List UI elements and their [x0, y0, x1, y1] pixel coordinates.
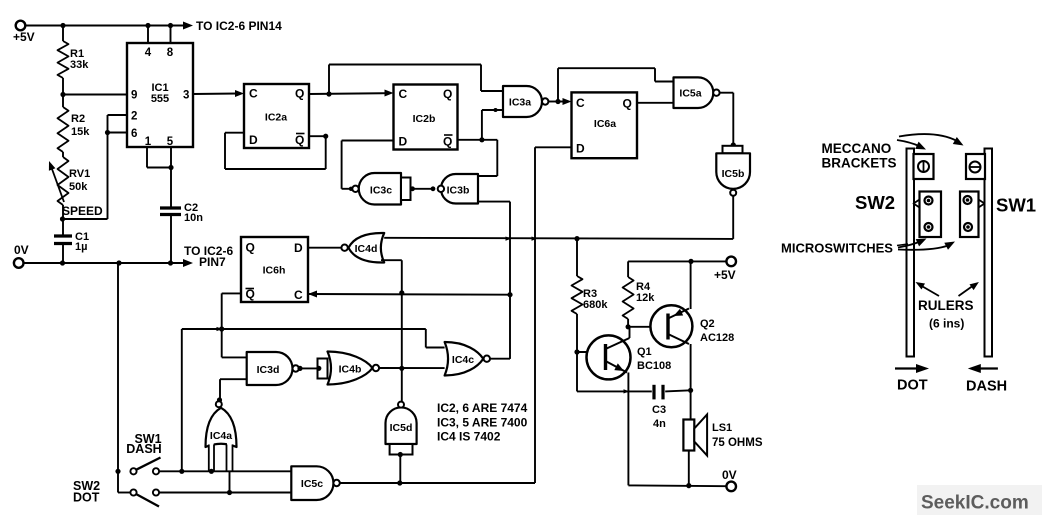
svg-text:IC5c: IC5c — [301, 478, 323, 490]
svg-text:Q: Q — [443, 87, 452, 101]
svg-text:Q: Q — [623, 97, 632, 111]
svg-text:IC4c: IC4c — [452, 354, 474, 366]
svg-text:RULERS: RULERS — [918, 298, 974, 313]
svg-text:IC5a: IC5a — [679, 88, 701, 100]
svg-text:9: 9 — [131, 90, 137, 102]
svg-text:D: D — [399, 135, 408, 149]
svg-text:DOT: DOT — [897, 378, 928, 394]
svg-text:10n: 10n — [184, 212, 203, 224]
svg-text:BC108: BC108 — [637, 360, 671, 372]
svg-text:TO IC2-6 PIN14: TO IC2-6 PIN14 — [196, 19, 282, 33]
svg-text:8: 8 — [167, 47, 174, 59]
svg-text:IC2a: IC2a — [265, 112, 287, 124]
svg-text:3: 3 — [183, 90, 189, 102]
svg-text:Q: Q — [295, 133, 304, 147]
svg-text:D: D — [576, 142, 585, 156]
svg-text:BRACKETS: BRACKETS — [822, 156, 897, 171]
svg-text:IC6a: IC6a — [594, 118, 616, 130]
svg-text:IC5b: IC5b — [722, 168, 745, 180]
svg-text:6: 6 — [131, 128, 137, 140]
svg-text:+5V: +5V — [714, 268, 736, 282]
svg-text:12k: 12k — [636, 292, 655, 304]
svg-text:Q: Q — [295, 87, 304, 101]
svg-text:680k: 680k — [583, 299, 608, 311]
svg-text:LS1: LS1 — [712, 422, 732, 434]
svg-text:MICROSWITCHES: MICROSWITCHES — [781, 241, 893, 256]
svg-text:Q1: Q1 — [637, 346, 652, 358]
svg-text:D: D — [294, 241, 303, 255]
svg-text:Q2: Q2 — [700, 318, 715, 330]
svg-text:C: C — [399, 87, 408, 101]
svg-text:IC4b: IC4b — [339, 364, 362, 376]
svg-text:555: 555 — [151, 93, 169, 105]
svg-text:Q: Q — [443, 135, 452, 149]
svg-text:RV1: RV1 — [69, 168, 90, 180]
svg-text:IC3d: IC3d — [257, 364, 280, 376]
svg-text:PIN7: PIN7 — [199, 255, 226, 269]
svg-text:IC4d: IC4d — [355, 243, 378, 255]
svg-text:0V: 0V — [722, 468, 737, 482]
svg-text:MECCANO: MECCANO — [822, 141, 892, 156]
svg-text:C: C — [249, 87, 258, 101]
svg-text:4n: 4n — [653, 418, 666, 430]
svg-text:IC2, 6 ARE 7474: IC2, 6 ARE 7474 — [437, 401, 528, 415]
svg-text:50k: 50k — [69, 181, 88, 193]
svg-text:DASH: DASH — [126, 442, 161, 456]
svg-text:0V: 0V — [14, 243, 29, 257]
svg-text:Q: Q — [246, 241, 255, 255]
svg-text:IC5d: IC5d — [390, 422, 413, 434]
svg-text:C: C — [576, 96, 585, 110]
svg-text:D: D — [249, 133, 258, 147]
svg-text:IC3, 5 ARE 7400: IC3, 5 ARE 7400 — [437, 416, 528, 430]
svg-text:(6 ins): (6 ins) — [929, 317, 964, 331]
svg-text:DOT: DOT — [73, 491, 100, 505]
svg-text:SeekIC.com: SeekIC.com — [921, 493, 1029, 514]
svg-text:C3: C3 — [652, 404, 666, 416]
svg-text:IC3b: IC3b — [447, 185, 470, 197]
svg-text:75 OHMS: 75 OHMS — [712, 437, 763, 449]
svg-text:IC3c: IC3c — [370, 185, 392, 197]
svg-text:IC2b: IC2b — [413, 113, 436, 125]
svg-text:4: 4 — [145, 47, 152, 59]
svg-text:IC3a: IC3a — [509, 97, 531, 109]
svg-text:IC6h: IC6h — [263, 265, 286, 277]
svg-text:1: 1 — [145, 136, 152, 148]
svg-text:IC4 IS 7402: IC4 IS 7402 — [437, 430, 501, 444]
svg-text:IC4a: IC4a — [210, 430, 232, 442]
svg-text:5: 5 — [167, 136, 174, 148]
svg-text:SW2: SW2 — [855, 192, 895, 213]
svg-text:AC128: AC128 — [700, 332, 734, 344]
svg-text:+5V: +5V — [13, 30, 35, 44]
svg-text:SPEED: SPEED — [62, 204, 103, 218]
svg-text:R2: R2 — [71, 113, 85, 125]
svg-text:C: C — [294, 288, 303, 302]
svg-text:33k: 33k — [70, 59, 89, 71]
svg-text:SW1: SW1 — [996, 195, 1036, 216]
svg-text:1µ: 1µ — [75, 241, 87, 253]
svg-text:2: 2 — [131, 111, 137, 123]
svg-text:DASH: DASH — [966, 379, 1007, 395]
svg-text:15k: 15k — [71, 126, 90, 138]
